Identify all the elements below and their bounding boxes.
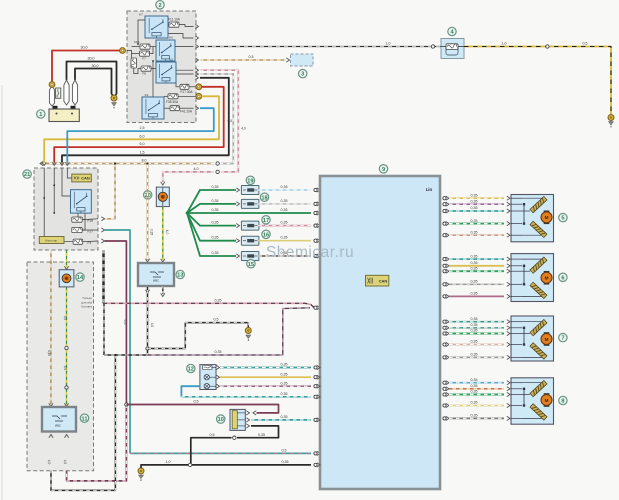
- wire yellow 6.0: [196, 93, 202, 99]
- svg-text:M: M: [545, 398, 549, 403]
- svg-text:0,35: 0,35: [212, 199, 219, 203]
- svg-text:0,5: 0,5: [123, 320, 127, 325]
- label 21: [23, 170, 31, 178]
- svg-text:6,0: 6,0: [140, 134, 145, 138]
- label 19: [246, 176, 254, 184]
- wire 0.35 door group 5 y211: [443, 209, 446, 212]
- wire green 0.35 branch y225.6: [187, 213, 236, 226]
- svg-text:18: 18: [261, 195, 267, 201]
- svg-text:F15: F15: [134, 40, 140, 44]
- relay K6: [156, 40, 175, 61]
- wire 0.35 door group 5 y223.6: [443, 222, 446, 225]
- wire black 1.0 ground to module: [141, 465, 311, 468]
- wire 0.35 door group 8 y405.5: [443, 404, 446, 407]
- svg-text:1,5: 1,5: [140, 150, 145, 154]
- wire 0.35 door group 7 y327.8: [443, 326, 446, 329]
- fusible link black 2: [72, 80, 77, 105]
- inline connector 17: [241, 221, 259, 230]
- control unit box 21: [34, 168, 98, 250]
- svg-text:0,5: 0,5: [194, 400, 199, 404]
- svg-text:F38 30A: F38 30A: [166, 100, 179, 104]
- wire yellow-black 1.0 to ground right: [464, 47, 611, 115]
- wire blue 2.5: [195, 106, 198, 110]
- wire internals box21: [44, 168, 98, 242]
- wire teal 0.5 from F27 to module 9: [105, 230, 131, 453]
- wire pink-black dashed 0.35 to module 9: [102, 250, 104, 303]
- wire black outer 30.0: [67, 62, 117, 95]
- svg-text:0,35: 0,35: [281, 372, 288, 376]
- fusible link red: [49, 86, 54, 106]
- svg-text:3: 3: [301, 72, 304, 78]
- svg-text:0,35: 0,35: [471, 206, 478, 210]
- label 16: [262, 230, 270, 238]
- svg-text:CAN: CAN: [379, 278, 388, 283]
- svg-text:0,35: 0,35: [471, 384, 478, 388]
- wire 0.35 door group 8 y388.8: [443, 387, 446, 390]
- svg-text:0,35: 0,35: [215, 298, 222, 302]
- relay K3: [156, 62, 176, 83]
- wire 0.35 door group 7 y333.5: [443, 332, 446, 335]
- svg-text:0,35: 0,35: [212, 208, 219, 212]
- svg-text:0,35: 0,35: [281, 363, 288, 367]
- svg-text:16: 16: [263, 232, 269, 238]
- status LED 14: [59, 270, 74, 287]
- wire maroon 0.5 to diag connector 10: [126, 405, 278, 413]
- svg-text:0,35: 0,35: [150, 229, 154, 236]
- door lock actuator 5: [511, 195, 554, 242]
- ground bolt engine: [112, 94, 115, 97]
- door lock actuator 8: [511, 378, 554, 424]
- svg-text:0,35: 0,35: [471, 193, 478, 197]
- svg-text:0,35: 0,35: [471, 414, 478, 418]
- wire yellow 0.35 lamp to module: [216, 375, 219, 379]
- ground bolt right: [608, 115, 614, 121]
- svg-text:0,35: 0,35: [281, 236, 288, 240]
- svg-text:0,35: 0,35: [471, 261, 478, 265]
- fuse F8: [141, 66, 151, 71]
- fuse/relay mounting block box 2: [127, 11, 196, 123]
- svg-text:12: 12: [188, 367, 194, 373]
- svg-text:1,0: 1,0: [386, 42, 391, 46]
- wire red 6.0: [196, 84, 202, 90]
- relay K7: [145, 16, 168, 38]
- wire green 0.35 branch y213: [187, 212, 311, 214]
- fusible link black 1: [64, 80, 69, 105]
- fuse 2 link: [56, 88, 61, 98]
- svg-text:4,0: 4,0: [165, 230, 169, 235]
- svg-text:Shemicar.ru: Shemicar.ru: [266, 244, 354, 261]
- lamp block 12: [200, 365, 216, 390]
- door lock actuator 7: [511, 316, 554, 361]
- svg-text:30,0: 30,0: [92, 64, 99, 68]
- svg-text:0,35: 0,35: [471, 329, 478, 333]
- svg-text:4,0: 4,0: [47, 460, 51, 465]
- svg-text:блок упр.: блок упр.: [45, 238, 58, 242]
- label 17: [262, 216, 270, 224]
- svg-text:13: 13: [177, 273, 183, 279]
- svg-text:1,0: 1,0: [502, 42, 507, 46]
- svg-text:4,0: 4,0: [63, 460, 67, 465]
- wire black 1.5: [195, 76, 198, 80]
- svg-text:F8: F8: [142, 72, 146, 76]
- svg-text:0,35: 0,35: [281, 415, 288, 419]
- fuse F27: [72, 227, 82, 232]
- svg-text:4,0: 4,0: [150, 323, 154, 328]
- wire 0.35 door group 8 y382.7: [443, 381, 446, 384]
- wire 0.35 door group 5 y235.2: [443, 234, 446, 237]
- svg-text:F27: F27: [88, 229, 94, 233]
- svg-text:0,35: 0,35: [47, 350, 51, 356]
- svg-text:0,35: 0,35: [471, 323, 478, 327]
- diagnostic connector 10: [230, 409, 245, 430]
- label 1: [37, 110, 45, 118]
- wire violet 0.35 lamp to module: [216, 384, 219, 388]
- wire tan 8.0 horizontal: [41, 163, 214, 165]
- inline connector 16: [241, 236, 259, 245]
- wire 0.35 door group 6 y265.8: [443, 264, 446, 267]
- wire purple-black dashed 0.35 ground branch to module 9: [148, 308, 311, 355]
- fuse F41 20A: [170, 106, 180, 111]
- ground bolt middle: [245, 328, 251, 334]
- svg-text:0,35: 0,35: [258, 433, 265, 437]
- connector arrows box21 fuses: [101, 217, 104, 221]
- svg-text:0,35: 0,35: [281, 185, 288, 189]
- svg-text:0,35: 0,35: [471, 266, 478, 270]
- wire 0.35 door group 5 y198.2: [443, 197, 446, 200]
- svg-text:F11 10A: F11 10A: [168, 17, 181, 21]
- svg-text:0,35: 0,35: [471, 401, 478, 405]
- svg-text:1,0: 1,0: [166, 460, 171, 464]
- svg-text:0,5: 0,5: [583, 42, 588, 46]
- fuse holder 4: [441, 39, 464, 59]
- svg-text:M: M: [545, 276, 549, 281]
- label 15: [247, 260, 255, 268]
- svg-text:Lin: Lin: [426, 187, 433, 192]
- svg-text:21: 21: [24, 172, 30, 178]
- label 18: [260, 193, 268, 201]
- wire tan dashed 0.35 to siren module: [50, 250, 52, 405]
- fuse F38 30A: [168, 94, 178, 99]
- svg-text:0,35: 0,35: [471, 340, 478, 344]
- svg-text:4,0: 4,0: [241, 127, 246, 131]
- wire teal 0.35 lamp to module: [216, 365, 219, 369]
- svg-text:0,5: 0,5: [210, 433, 215, 437]
- svg-text:0,35: 0,35: [281, 221, 288, 225]
- svg-text:0,35: 0,35: [215, 350, 222, 354]
- buzzer 20: [156, 187, 169, 207]
- wire black inner 30.0: [75, 69, 112, 95]
- label 9: [379, 165, 387, 173]
- svg-text:0,35: 0,35: [471, 230, 478, 234]
- svg-text:0,35: 0,35: [281, 199, 288, 203]
- wire gray dashed 8.0 riser: [195, 72, 198, 76]
- svg-text:CAN: CAN: [81, 176, 90, 181]
- label 20: [144, 191, 152, 199]
- svg-text:2,5: 2,5: [140, 126, 145, 130]
- splice connector black: [146, 347, 149, 350]
- CAN badge box21: [72, 174, 92, 182]
- ground bolt bottom: [138, 468, 144, 474]
- switch box 3: [291, 54, 314, 66]
- wire out of connector 17: [258, 225, 311, 227]
- svg-text:F7: F7: [142, 57, 146, 61]
- ring terminal at block: [120, 48, 126, 54]
- svg-text:F4: F4: [88, 241, 92, 245]
- svg-text:0,35: 0,35: [471, 390, 478, 394]
- wire 0.35 door group 6 y259.1: [443, 258, 446, 261]
- wire stub below unit 13 right pin: [162, 286, 164, 294]
- label 8: [559, 396, 567, 404]
- svg-text:14: 14: [77, 275, 84, 281]
- label 5: [559, 213, 567, 221]
- svg-text:F19: F19: [88, 219, 94, 223]
- wire teal dashed 0.35 diag to module: [251, 419, 311, 421]
- splice connector purple: [125, 403, 128, 406]
- wire gray-black 1.0 to fuse 4: [195, 44, 198, 48]
- label 3: [299, 69, 307, 77]
- fuse F19: [72, 217, 82, 222]
- wire out of connector 18: [258, 203, 311, 205]
- wire teal dashed 0.35 to module: [181, 396, 311, 398]
- svg-text:11: 11: [82, 416, 88, 422]
- svg-text:2: 2: [158, 3, 161, 9]
- svg-text:0,35: 0,35: [471, 280, 478, 284]
- svg-text:0,35: 0,35: [281, 208, 288, 212]
- wire out of connector 15: [258, 255, 311, 257]
- label 4: [448, 27, 456, 35]
- wire 0.35 door group 6 y271.2: [443, 270, 446, 273]
- wire green 0.35 branch y256: [187, 213, 236, 256]
- svg-text:0,35: 0,35: [471, 378, 478, 382]
- svg-text:K3: K3: [169, 58, 173, 62]
- svg-text:K7: K7: [139, 12, 143, 16]
- svg-text:5: 5: [561, 216, 564, 222]
- svg-text:K6: K6: [169, 36, 173, 40]
- wire 0.35 door group 7 y321.7: [443, 320, 446, 323]
- label 13: [176, 270, 184, 278]
- svg-text:0,35: 0,35: [471, 353, 478, 357]
- fuse F11 10A: [169, 22, 179, 27]
- svg-text:15: 15: [248, 262, 254, 268]
- svg-text:M: M: [545, 215, 549, 220]
- control unit 13: [138, 263, 174, 286]
- svg-text:8: 8: [561, 399, 564, 405]
- wire yellow-green 4.0 buzzer to unit 13: [162, 207, 164, 260]
- wire green 0.35 branch y240.7: [187, 213, 236, 241]
- wire yellow-green to siren module: [66, 250, 68, 268]
- svg-text:0,35: 0,35: [471, 254, 478, 258]
- svg-text:4,0: 4,0: [63, 366, 67, 371]
- fuse F30: [131, 58, 137, 68]
- svg-text:0,35: 0,35: [471, 199, 478, 203]
- svg-text:0,35: 0,35: [471, 317, 478, 321]
- svg-text:0,35: 0,35: [281, 381, 288, 385]
- svg-text:0,5: 0,5: [249, 55, 254, 59]
- svg-text:6,0: 6,0: [140, 142, 145, 146]
- svg-text:F41 20A: F41 20A: [180, 110, 193, 114]
- fuse F17 30A: [180, 84, 189, 89]
- svg-text:M: M: [545, 337, 549, 342]
- door lock actuator 6: [511, 254, 554, 302]
- label 14: [76, 273, 84, 281]
- wire 0.35 door group 8 y394.5: [443, 393, 446, 396]
- fuse F4: [73, 239, 83, 244]
- svg-text:0,35: 0,35: [212, 251, 219, 255]
- svg-text:9: 9: [382, 167, 385, 173]
- svg-text:0,5: 0,5: [63, 316, 67, 321]
- wire black dashed from box21 down: [103, 250, 105, 355]
- wire 0.35 door group 6 y284.3: [443, 283, 446, 286]
- wire 0.35 door group 8 y418.4: [443, 417, 446, 420]
- inline connector 15: [241, 252, 259, 261]
- option container box: [27, 262, 94, 471]
- siren unit 11: [42, 407, 76, 432]
- wire tan-white 0.5 to switch 3: [195, 58, 198, 62]
- wire 0.35 door group 6 y296.4: [443, 295, 446, 298]
- svg-text:ИВС: ИВС: [55, 424, 62, 428]
- connector arrows siren 11: [49, 435, 53, 438]
- inline connector 18: [241, 199, 259, 208]
- wire 0.35 door group 7 y357.4: [443, 356, 446, 359]
- svg-text:10: 10: [218, 417, 224, 423]
- inline connector 19: [241, 186, 259, 195]
- svg-text:0,35: 0,35: [282, 460, 289, 464]
- svg-text:8,0: 8,0: [142, 159, 147, 163]
- label 11: [80, 414, 88, 422]
- wire out of connector 16: [258, 240, 311, 242]
- svg-text:17: 17: [263, 218, 269, 224]
- green harness node: [186, 212, 189, 215]
- wire pink-gray dashed 4.0 to buzzer 20: [195, 68, 198, 72]
- svg-text:0,35: 0,35: [212, 185, 219, 189]
- wire black dashed 0.5 to ground bolt: [148, 323, 249, 349]
- CAN badge module 9: [366, 275, 389, 286]
- fuse F15: [140, 44, 150, 49]
- svg-text:0,35: 0,35: [212, 236, 219, 240]
- label 6: [559, 273, 567, 281]
- wire black diag ground: [237, 426, 279, 438]
- wire black dashed to siren 11: [51, 355, 115, 490]
- svg-text:ИВС: ИВС: [153, 279, 160, 283]
- svg-text:30,0: 30,0: [81, 46, 88, 50]
- wire 0.35 door group 5 y204.2: [443, 203, 446, 206]
- svg-text:F17 30A: F17 30A: [180, 90, 193, 94]
- svg-text:0,5: 0,5: [214, 318, 219, 322]
- svg-text:6: 6: [561, 275, 564, 281]
- label 2: [156, 1, 164, 9]
- relay in box21: [71, 190, 92, 213]
- label 7: [559, 333, 567, 341]
- wire green 0.35 branch y203.9: [187, 204, 236, 213]
- wire purple from F4 via splice to siren 11: [105, 241, 127, 405]
- wire tan riser from fuse F19: [104, 165, 115, 219]
- relay K2: [142, 97, 164, 119]
- wire 0.35 door group 7 y344.5: [443, 343, 446, 346]
- label 12: [187, 364, 195, 372]
- svg-text:19: 19: [247, 178, 253, 184]
- wire green 0.35 branch y190: [187, 190, 236, 213]
- wire tan 0.35 to unit 13: [147, 165, 149, 261]
- wire internal bus box2: [127, 20, 196, 108]
- svg-text:Калина: Калина: [82, 305, 93, 309]
- yellow unit label box: [39, 237, 64, 244]
- fuse F7: [140, 51, 150, 56]
- battery 1: [53, 106, 58, 110]
- svg-text:4,0: 4,0: [194, 167, 199, 171]
- svg-text:0,5: 0,5: [282, 449, 287, 453]
- wire out of connector 19: [258, 189, 311, 191]
- svg-text:0,35: 0,35: [471, 219, 478, 223]
- svg-text:0,35: 0,35: [281, 392, 288, 396]
- wire black dashed branch to unit 13: [104, 287, 148, 355]
- svg-text:K2: K2: [145, 93, 149, 97]
- wire blue lamp feed: [181, 386, 200, 397]
- svg-text:0,35: 0,35: [212, 221, 219, 225]
- central body control module 9: [320, 176, 440, 489]
- ring terminal red top: [49, 82, 55, 88]
- connector arrows box2 outputs: [195, 24, 198, 28]
- svg-text:1: 1: [39, 112, 42, 118]
- svg-text:7: 7: [561, 336, 564, 342]
- svg-text:30,0: 30,0: [88, 57, 95, 61]
- label 10: [217, 415, 225, 423]
- wire red battery 30.0: [52, 51, 125, 85]
- svg-text:0,35: 0,35: [471, 292, 478, 296]
